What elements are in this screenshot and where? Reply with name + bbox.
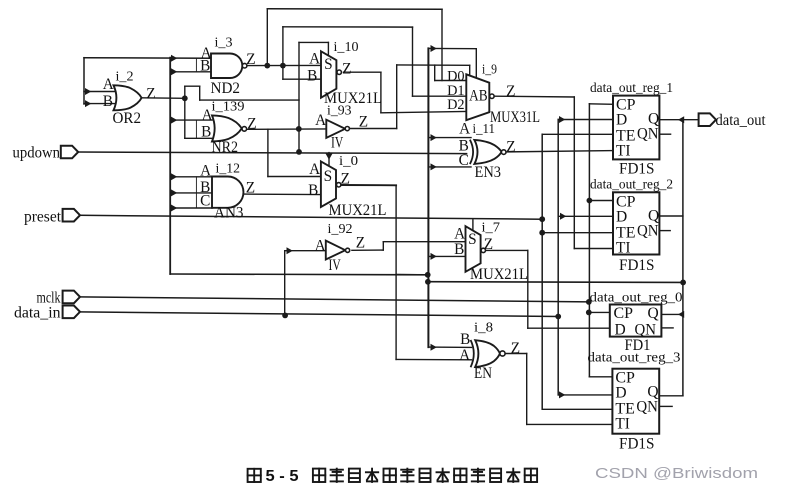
svg-text:A: A (309, 51, 320, 68)
svg-text:MUX21L: MUX21L (470, 266, 528, 283)
svg-text:Z: Z (484, 236, 493, 253)
svg-text:Z: Z (246, 179, 255, 196)
svg-text:AB: AB (469, 87, 488, 104)
svg-text:S: S (324, 56, 333, 73)
svg-text:AN3: AN3 (214, 204, 244, 221)
svg-text:TI: TI (615, 416, 630, 433)
svg-text:A: A (454, 225, 465, 242)
svg-text:i_8: i_8 (474, 321, 493, 336)
svg-text:S: S (468, 231, 477, 248)
svg-text:i_92: i_92 (328, 222, 353, 237)
svg-text:Z: Z (247, 115, 256, 132)
svg-text:updown: updown (13, 144, 61, 161)
svg-text:D: D (616, 208, 627, 225)
svg-text:FD1S: FD1S (619, 435, 655, 452)
svg-text:TI: TI (616, 143, 631, 160)
svg-text:A: A (459, 121, 470, 138)
svg-text:A: A (459, 347, 470, 364)
svg-text:FD1S: FD1S (619, 160, 655, 177)
svg-text:i_10: i_10 (334, 40, 359, 55)
svg-text:B: B (103, 93, 113, 110)
svg-text:S: S (324, 168, 333, 185)
svg-text:TI: TI (616, 239, 631, 256)
svg-text:D0: D0 (447, 68, 465, 84)
svg-text:B: B (308, 182, 318, 199)
svg-text:Z: Z (342, 60, 351, 77)
svg-text:OR2: OR2 (113, 110, 142, 127)
svg-text:B: B (201, 123, 211, 140)
svg-text:A: A (315, 237, 326, 254)
svg-text:data_out: data_out (716, 112, 767, 129)
svg-text:A: A (202, 107, 213, 124)
svg-text:Q: Q (648, 305, 659, 322)
svg-text:i_11: i_11 (473, 122, 496, 137)
svg-text:5 - 5: 5 - 5 (266, 468, 299, 485)
svg-text:data_out_reg_1: data_out_reg_1 (590, 80, 673, 95)
svg-text:B: B (307, 67, 317, 84)
svg-text:i_2: i_2 (116, 70, 134, 85)
svg-text:EN3: EN3 (475, 164, 502, 181)
svg-text:CP: CP (614, 305, 634, 322)
svg-text:C: C (200, 193, 210, 210)
svg-text:Z: Z (506, 138, 515, 155)
svg-text:data_out_reg_2: data_out_reg_2 (590, 176, 673, 191)
svg-text:B: B (200, 58, 210, 75)
svg-text:i_7: i_7 (482, 220, 501, 235)
svg-text:IV: IV (331, 135, 343, 152)
svg-text:A: A (103, 76, 114, 93)
svg-text:Z: Z (506, 83, 515, 100)
svg-text:Z: Z (356, 235, 365, 252)
svg-text:CSDN @Briwisdom: CSDN @Briwisdom (595, 465, 758, 482)
svg-text:D: D (616, 112, 627, 129)
svg-text:Z: Z (341, 171, 350, 188)
svg-text:data_out_reg_3: data_out_reg_3 (588, 350, 681, 365)
svg-text:EN: EN (474, 365, 492, 382)
svg-text:i_12: i_12 (216, 162, 241, 177)
svg-text:FD1S: FD1S (619, 257, 655, 274)
svg-text:Z: Z (246, 51, 255, 68)
svg-text:i_139: i_139 (212, 100, 245, 115)
svg-text:i_93: i_93 (327, 104, 352, 119)
svg-text:QN: QN (637, 126, 659, 143)
svg-text:data_in: data_in (14, 305, 61, 322)
svg-text:Z: Z (359, 113, 368, 130)
svg-text:C: C (459, 152, 469, 169)
svg-text:preset: preset (24, 208, 62, 225)
svg-text:MUX21L: MUX21L (329, 202, 387, 219)
svg-text:NR2: NR2 (212, 139, 239, 156)
svg-text:D2: D2 (447, 97, 465, 113)
svg-text:A: A (315, 112, 326, 129)
svg-text:QN: QN (637, 222, 659, 239)
svg-text:A: A (309, 161, 320, 178)
svg-text:A: A (200, 163, 211, 180)
svg-text:i_9: i_9 (482, 63, 497, 78)
svg-text:B: B (460, 331, 470, 348)
svg-text:Z: Z (511, 340, 520, 357)
svg-text:ND2: ND2 (211, 80, 241, 97)
svg-text:D: D (615, 385, 626, 402)
svg-text:data_out_reg_0: data_out_reg_0 (590, 289, 683, 304)
svg-text:i_3: i_3 (215, 35, 233, 50)
svg-text:MUX31L: MUX31L (490, 109, 540, 126)
svg-text:Z: Z (146, 86, 155, 103)
svg-text:B: B (454, 241, 464, 258)
svg-text:QN: QN (636, 399, 658, 416)
svg-text:i_0: i_0 (339, 154, 358, 169)
svg-text:IV: IV (329, 257, 341, 274)
